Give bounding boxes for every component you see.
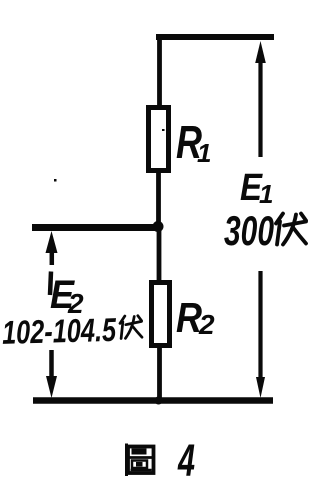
label E2 [50, 273, 84, 319]
wire: R2 bottom to bottom wire [157, 345, 162, 400]
dimension E2 upper segment with up arrowhead and dash [46, 231, 58, 295]
dimension E1 upper segment with up arrowhead [255, 41, 266, 157]
scan speck [54, 179, 57, 182]
label 300伏 value [224, 207, 306, 254]
svg-text:102-104.5: 102-104.5 [2, 311, 117, 351]
wire: R1 bottom to junction [156, 170, 161, 228]
svg-text:4: 4 [177, 435, 195, 486]
label R2 [176, 294, 215, 341]
wire: bottom horizontal [33, 397, 273, 404]
scan speck inside R1 [162, 129, 165, 131]
dimension E1 lower segment with down arrowhead [256, 271, 265, 398]
dimension E2 lower segment with down arrowhead [46, 350, 57, 398]
svg-text:1: 1 [259, 179, 273, 209]
label E1 [240, 167, 273, 209]
wire: top horizontal [156, 34, 274, 40]
wire: middle tap horizontal [32, 224, 160, 231]
wire: left vertical from top wire down to R1 [157, 35, 162, 108]
label 102-104.5伏 value [2, 310, 143, 351]
node: bottom junction [155, 397, 163, 405]
svg-text:1: 1 [197, 138, 211, 168]
resistor R2 [152, 283, 170, 346]
node: junction dot at divider tap [153, 221, 164, 232]
wire: junction to R2 [157, 226, 162, 283]
resistor R1 [149, 108, 169, 171]
caption glyph 圖 (figure) [127, 444, 154, 477]
label R1 [176, 116, 211, 168]
svg-text:300: 300 [224, 207, 274, 254]
svg-text:2: 2 [198, 309, 215, 340]
